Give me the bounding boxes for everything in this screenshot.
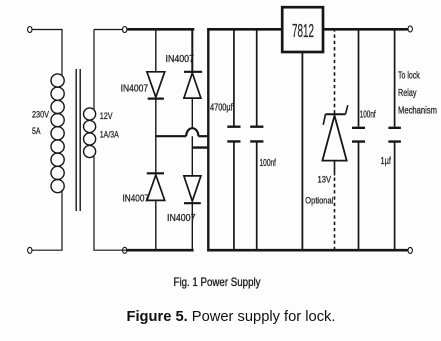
svg-text:4700µf: 4700µf — [210, 103, 233, 114]
svg-text:230V: 230V — [32, 109, 50, 120]
svg-text:Relay: Relay — [398, 88, 417, 99]
svg-text:12V: 12V — [100, 111, 113, 122]
svg-text:100nf: 100nf — [260, 158, 277, 169]
svg-text:Mechanism: Mechanism — [398, 105, 437, 116]
svg-text:100nf: 100nf — [360, 109, 376, 120]
svg-text:7812: 7812 — [292, 20, 314, 41]
svg-text:Fig. 1 Power Supply: Fig. 1 Power Supply — [174, 275, 261, 289]
svg-text:IN4007: IN4007 — [167, 213, 196, 224]
svg-text:Optional: Optional — [305, 196, 333, 207]
svg-text:Figure 5. Power supply for loc: Figure 5. Power supply for lock. — [127, 309, 336, 325]
svg-text:13V: 13V — [318, 175, 332, 186]
svg-text:1A/3A: 1A/3A — [100, 130, 119, 141]
svg-text:To lock: To lock — [398, 70, 420, 81]
svg-text:IN4007: IN4007 — [166, 54, 195, 65]
svg-text:IN4007: IN4007 — [123, 193, 150, 204]
svg-text:1µf: 1µf — [381, 156, 392, 167]
svg-text:5A: 5A — [32, 126, 41, 137]
svg-text:IN4007: IN4007 — [121, 83, 149, 94]
